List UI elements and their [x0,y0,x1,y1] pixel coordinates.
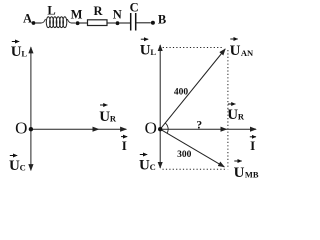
svg-text:400: 400 [174,88,189,98]
svg-text:M: M [71,8,83,22]
left label I [121,137,127,153]
left diagram current axis I [99,128,127,130]
node M junction dot [76,21,80,25]
svg-text:N: N [113,7,122,21]
svg-text:L: L [150,47,156,57]
right diagram vector UMB [160,129,224,167]
svg-text:AN: AN [241,48,254,58]
right diagram vertical axis (UL up, UC down) [159,45,161,129]
svg-text:I: I [122,138,127,153]
svg-text:L: L [47,4,55,18]
svg-text:R: R [93,4,103,18]
right origin dot O [158,127,162,131]
dotted projection line bottom (UMB horizontal) [163,168,227,170]
left diagram vector UR (horizontal arrow) [31,128,99,130]
svg-text:O: O [145,119,157,138]
wire resistor to N [107,22,116,24]
svg-text:U: U [234,165,245,181]
node B junction dot [151,21,155,25]
svg-text:U: U [227,107,238,123]
node A junction dot [32,21,36,25]
svg-text:L: L [21,49,27,59]
right label UMB [234,161,259,181]
svg-text:U: U [99,109,110,125]
left label UC [9,156,26,175]
right diagram vector UAN [160,49,225,129]
right label UL [140,39,157,58]
svg-text:O: O [15,118,27,137]
capacitor C left plate [130,13,132,31]
svg-text:B: B [158,12,166,26]
resistor R body [88,20,108,26]
node N junction dot [116,21,120,25]
svg-text:U: U [9,158,20,174]
wire A to inductor [35,22,41,24]
wire capacitor to B [137,22,151,24]
svg-text:300: 300 [177,150,192,160]
left diagram vertical axis (UL up, UC down) [30,47,32,129]
wire M to resistor [80,22,88,24]
svg-text:U: U [230,43,241,59]
svg-text:A: A [23,12,32,26]
capacitor C right plate [135,13,137,31]
left origin dot O [29,127,33,131]
svg-text:I: I [250,138,255,153]
dotted projection line top (UAN horizontal) [163,47,224,49]
right diagram current axis I [227,128,256,130]
svg-text:C: C [20,163,26,173]
angle arc between UAN and UMB [165,123,168,133]
svg-text:R: R [238,111,245,121]
svg-text:C: C [150,162,156,172]
left label UR [99,105,117,125]
svg-text:C: C [130,0,139,14]
svg-text:MB: MB [245,170,259,180]
svg-text:U: U [140,43,151,59]
svg-text:R: R [110,114,117,124]
right label UR [227,104,245,123]
right label UAN [230,39,254,59]
svg-text:U: U [11,44,22,60]
right label I [250,137,256,153]
wire N to capacitor [119,22,130,24]
svg-text:U: U [139,158,150,174]
svg-text:?: ? [196,119,202,131]
right label UC [139,155,156,174]
dotted projection line vertical (through UAN and UMB tips) [227,50,229,169]
right diagram vector UR (horizontal arrow to dotted line) [160,128,226,130]
inductor L coil [41,17,76,28]
left label UL [11,42,28,61]
